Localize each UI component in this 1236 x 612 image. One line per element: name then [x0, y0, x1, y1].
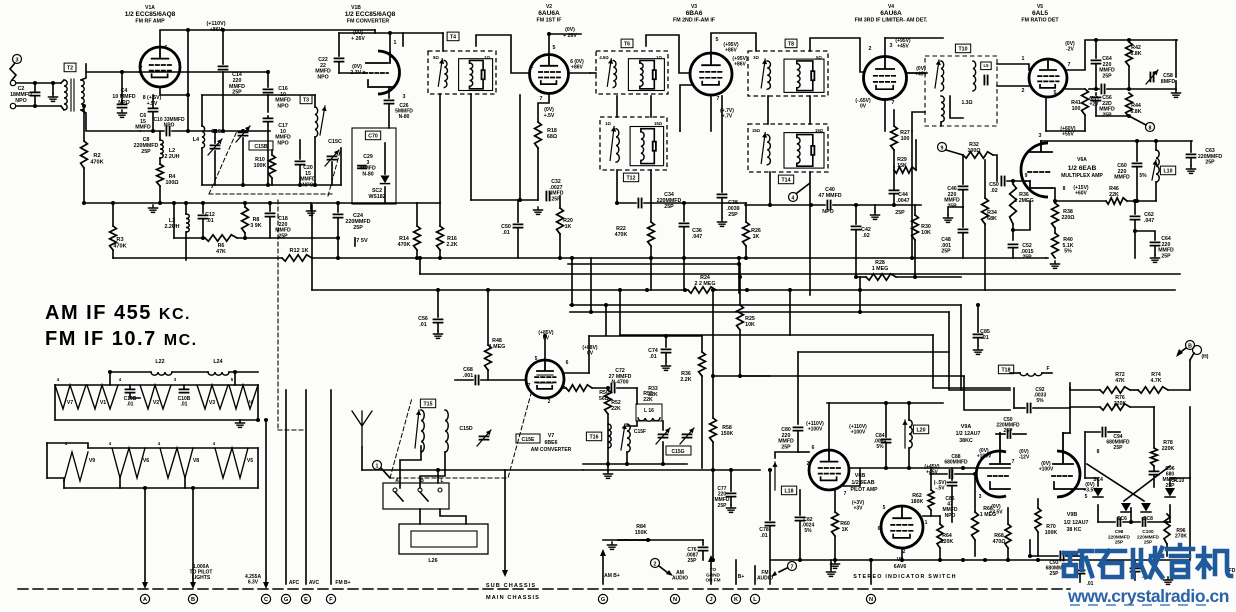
capacitor C52	[1009, 244, 1018, 247]
wire row1 right drop	[257, 385, 259, 420]
wire V7 plate up	[544, 336, 546, 360]
svg-text:(0V)+43V: (0V)+43V	[915, 66, 927, 78]
wire C66 bottom	[1154, 247, 1156, 255]
capacitor C15C arrow	[325, 150, 339, 166]
wire R41 bottom	[1084, 115, 1086, 131]
wire switch to L26	[419, 509, 421, 524]
wire V3 plate to T8	[711, 33, 756, 53]
wire gnd stem	[310, 203, 312, 208]
svg-text:15Ω: 15Ω	[752, 128, 761, 133]
wire stub3	[1045, 257, 1047, 259]
svg-text:9: 9	[1025, 173, 1028, 179]
wire T15b to switch	[420, 452, 445, 488]
svg-text:L: L	[440, 478, 443, 484]
wire R4 to node	[159, 186, 161, 203]
capacitor C15G arrow	[680, 428, 694, 444]
svg-text:T8: T8	[788, 42, 794, 48]
wire to C58 col	[1129, 88, 1176, 90]
capacitor C78	[766, 522, 775, 525]
tube V9A cathode	[990, 482, 1010, 489]
wire L3 bottom	[185, 232, 187, 260]
junction	[661, 462, 665, 466]
wire row2 right drop	[257, 448, 259, 488]
wire R68 bottom	[1007, 548, 1009, 560]
svg-text:V3: V3	[209, 400, 215, 406]
svg-text:L: L	[753, 597, 757, 603]
wire V6B plate up	[828, 403, 830, 450]
junction	[1036, 558, 1040, 562]
terminal N	[866, 594, 875, 603]
wire C85 bottom	[977, 339, 979, 346]
wire heater row2 bottom rail	[64, 487, 258, 489]
svg-text:FM 1ST IF: FM 1ST IF	[536, 18, 562, 24]
wire x860 link	[859, 277, 861, 312]
wire	[1066, 555, 1080, 557]
ground below C4	[118, 110, 127, 117]
wire	[119, 478, 121, 488]
wire V1B cathode down	[388, 87, 390, 98]
coil L16	[638, 418, 660, 421]
junction	[976, 303, 980, 307]
wire row2 left loop bottom	[47, 478, 64, 481]
junction	[711, 288, 715, 292]
capacitor C6	[149, 108, 158, 111]
svg-text:AM IF 455 KC.: AM IF 455 KC.	[45, 302, 191, 324]
wire T14 drop	[769, 172, 771, 205]
svg-text:1/2 12AU7: 1/2 12AU7	[956, 431, 981, 437]
junction	[625, 462, 629, 466]
wire C84 bottom	[885, 444, 887, 468]
wire C44 bottom	[893, 195, 895, 205]
junction	[266, 70, 270, 74]
svg-text:C78.01: C78.01	[759, 527, 769, 539]
wire to C93	[1030, 555, 1058, 557]
svg-text:1: 1	[925, 520, 928, 526]
wire bus y274	[420, 273, 1180, 275]
wire R30 top	[914, 205, 916, 215]
wire y203 segment	[684, 202, 746, 204]
junction	[1028, 554, 1032, 558]
capacitor C15D arrow	[477, 430, 491, 446]
wire heater row2 top rail	[88, 447, 258, 449]
coil L26 box	[399, 524, 488, 554]
wire into T4	[442, 33, 444, 51]
chassis dashed line right	[962, 588, 1070, 590]
svg-text:V1: V1	[100, 400, 106, 406]
svg-text:R96270K: R96270K	[1175, 528, 1187, 540]
watermark glyph shou	[1133, 548, 1162, 577]
wire x949 corner2	[949, 352, 1010, 390]
resistor R40	[1052, 233, 1059, 258]
wire	[662, 421, 664, 430]
svg-text:38KC: 38KC	[959, 438, 973, 444]
IF transformer T14 secondary coil	[797, 137, 800, 163]
junction	[1094, 87, 1098, 91]
wire heater top rail 2	[172, 371, 208, 373]
ground below C85	[974, 347, 983, 354]
L20 arrow	[902, 420, 907, 448]
resistor R4	[157, 164, 164, 186]
svg-text:6 (0V)+86V: 6 (0V)+86V	[570, 59, 584, 71]
svg-text:4: 4	[792, 195, 795, 201]
IF transformer T8 primary arrow	[761, 59, 767, 88]
capacitor C20	[296, 161, 305, 164]
junction	[737, 256, 741, 260]
junction	[486, 288, 490, 292]
resistor R29	[894, 167, 916, 173]
wire T4 drop x471	[470, 94, 472, 200]
svg-text:1/2 ECC85/6AQ8: 1/2 ECC85/6AQ8	[345, 11, 396, 18]
svg-text:R58150K: R58150K	[721, 425, 734, 437]
ground at T2	[49, 94, 58, 101]
ground below V8	[827, 569, 836, 576]
svg-text:R162.2K: R162.2K	[446, 236, 457, 248]
svg-text:C50.02: C50.02	[989, 182, 999, 194]
wire C64 bottom	[1095, 65, 1097, 89]
wire to C10	[140, 130, 164, 132]
resistor R10	[269, 155, 276, 178]
watermark url dots	[1070, 604, 1206, 606]
IF transformer T8 primary coil	[767, 61, 770, 89]
T10 cap	[984, 76, 987, 85]
wire C82 bottom	[799, 522, 801, 560]
wire C50 bottom	[517, 229, 519, 258]
capacitor C88	[950, 470, 953, 478]
wire to terminal 4	[797, 183, 810, 193]
wire heater row1 node rail	[55, 384, 258, 386]
T15 arrow	[415, 410, 421, 448]
svg-text:(+60V)+55V: (+60V)+55V	[1060, 126, 1075, 138]
capacitor C92	[1027, 404, 1030, 413]
wire to terminal C	[265, 420, 267, 584]
wire y376	[714, 375, 770, 377]
wire C10B stem	[129, 385, 131, 388]
svg-text:8: 8	[1149, 125, 1152, 131]
wire C56 bottom	[437, 324, 439, 331]
capacitor C15B arrow	[236, 126, 250, 142]
wire	[592, 387, 609, 389]
junction	[221, 129, 225, 133]
tube V1A	[140, 47, 180, 87]
capacitor C34	[638, 199, 641, 208]
wire bus y352	[798, 351, 949, 353]
svg-text:(+15V)+60V: (+15V)+60V	[1073, 185, 1088, 197]
capacitor C15B	[239, 132, 248, 135]
IF transformer T4 secondary box	[459, 59, 493, 91]
capacitor C50b	[1001, 177, 1004, 186]
wire y200	[471, 199, 538, 201]
svg-text:www.crystalradio.cn: www.crystalradio.cn	[1067, 586, 1229, 606]
tube V1B grid	[364, 72, 388, 74]
capacitor C96	[1150, 471, 1159, 474]
wire y205 right	[833, 204, 921, 206]
resistor R58	[710, 418, 717, 442]
wire C46 top	[962, 155, 964, 184]
wire B+ drop x403	[402, 33, 404, 46]
svg-text:T10: T10	[959, 47, 968, 53]
capacitor C40	[827, 201, 830, 210]
junction	[186, 93, 190, 97]
wire	[1168, 389, 1190, 391]
wire V2 cathode	[538, 94, 549, 122]
junction	[615, 201, 619, 205]
T10 primary coil	[941, 61, 944, 91]
wire R64 bottom	[939, 548, 941, 560]
svg-text:R1868Ω: R1868Ω	[547, 128, 558, 140]
wire antenna lead	[10, 63, 16, 80]
svg-text:V9: V9	[89, 458, 95, 464]
resistor R70	[1035, 508, 1041, 532]
transformer T2 core	[70, 79, 72, 111]
tube V3	[690, 53, 732, 95]
wire AM B+ column	[602, 552, 604, 584]
wire y403	[827, 402, 943, 404]
watermark glyph yin	[1167, 545, 1193, 577]
junction	[108, 370, 112, 374]
svg-text:(+110V)+100V: (+110V)+100V	[806, 421, 824, 433]
tube V2	[530, 55, 569, 94]
wire cathode line y201	[1055, 200, 1106, 202]
wire R6 to C24	[237, 237, 338, 239]
wire antenna down	[361, 447, 363, 470]
svg-text:L20: L20	[917, 428, 926, 434]
wire C20 top	[299, 140, 301, 159]
wire to terminal 8	[1129, 116, 1146, 125]
wire C24 col to bus	[337, 238, 339, 258]
resistor R60	[832, 512, 839, 536]
wire to T2 primary bottom	[61, 106, 64, 110]
terminal G	[598, 594, 607, 603]
IF transformer T6 secondary box	[628, 59, 664, 91]
wire SC4 top	[1085, 478, 1098, 486]
tube V8	[881, 506, 923, 548]
capacitor C72	[611, 384, 614, 393]
svg-text:G: G	[601, 597, 605, 603]
capacitor .01 a	[1076, 570, 1085, 573]
watermark glyph kuang	[1064, 551, 1092, 576]
junction	[1133, 229, 1137, 233]
wire to C34	[617, 202, 636, 204]
wire C10 to node	[172, 130, 188, 132]
wire	[374, 30, 376, 33]
resistor R38	[1052, 203, 1059, 228]
tube V1B cathode	[368, 80, 392, 87]
resistor R72	[1100, 387, 1130, 393]
junction	[547, 32, 551, 36]
IF transformer T14 primary coil	[767, 135, 770, 165]
tube V9B grid	[1052, 475, 1074, 477]
dashed AGC link	[278, 429, 306, 431]
junction	[388, 31, 392, 35]
wire	[1153, 466, 1155, 470]
wire V8 cathode down	[901, 548, 903, 560]
capacitor C10B	[126, 389, 135, 392]
arrowhead C	[263, 582, 269, 589]
wire C18 bottom	[269, 218, 271, 238]
terminal E	[301, 594, 310, 603]
svg-text:6AL5: 6AL5	[1032, 10, 1048, 17]
capacitor C36	[680, 223, 689, 226]
wire R96 bottom	[1166, 544, 1168, 556]
junction	[221, 28, 225, 32]
capacitor C22	[335, 58, 344, 61]
junction	[711, 468, 715, 472]
svg-text:7: 7	[892, 100, 895, 106]
junction	[682, 201, 686, 205]
svg-text:15Ω: 15Ω	[654, 121, 663, 126]
svg-text:R3322K: R3322K	[648, 386, 658, 398]
wire R22 top	[650, 203, 652, 222]
svg-text:T16: T16	[590, 435, 599, 441]
wire bus y258 left	[113, 257, 282, 259]
IF transformer T14 secondary box	[784, 133, 824, 169]
wire V4 top bus	[885, 37, 943, 39]
wire gnd lead	[874, 205, 876, 212]
svg-text:C15G: C15G	[671, 449, 684, 455]
transformer T2 primary	[64, 80, 67, 110]
wire x702 drop	[701, 376, 703, 468]
junction	[664, 334, 668, 338]
wire C16 bottom	[267, 95, 269, 112]
resistor R48	[485, 345, 492, 370]
svg-text:C62.047: C62.047	[1144, 212, 1154, 224]
capacitor C68b	[475, 376, 478, 385]
heater V9	[64, 452, 88, 481]
ground heater row1	[236, 420, 245, 427]
svg-text:FM RF AMP: FM RF AMP	[135, 19, 165, 25]
wire T6 to T12 drop	[616, 96, 618, 117]
svg-text:5: 5	[553, 45, 556, 51]
resistor R64	[937, 524, 943, 548]
svg-text:3: 3	[15, 58, 18, 64]
svg-text:7: 7	[540, 96, 543, 102]
svg-text:2: 2	[548, 399, 551, 405]
terminal circled 7	[788, 562, 797, 571]
svg-text:5: 5	[1085, 494, 1088, 500]
diode SC10	[1165, 488, 1175, 497]
terminal circled Q	[1193, 346, 1202, 355]
wire x949 drop	[948, 312, 950, 352]
arrowhead t7	[771, 571, 777, 577]
resistor R36	[1010, 184, 1017, 224]
svg-text:T14: T14	[782, 178, 791, 184]
junction	[1133, 199, 1137, 203]
wire C86 top	[951, 468, 953, 480]
wire	[1069, 388, 1071, 408]
junction	[900, 558, 904, 562]
arrowhead A	[142, 582, 148, 589]
wire T6 secondary to V3	[646, 35, 690, 73]
junction	[336, 256, 340, 260]
wire J column	[710, 560, 712, 584]
switch contact A	[393, 488, 397, 492]
IF transformer T8 link2	[797, 80, 813, 90]
wire C64 top	[1095, 40, 1097, 58]
wire	[340, 148, 342, 185]
svg-text:N: N	[673, 597, 677, 603]
wire	[1013, 388, 1015, 408]
junction	[604, 303, 608, 307]
IF transformer T14 label	[778, 175, 793, 184]
wire R18 bottom	[537, 148, 539, 200]
coil T15 label	[420, 399, 435, 408]
wire x798 drop	[797, 352, 799, 424]
switch lever A	[395, 492, 403, 501]
junction	[184, 201, 188, 205]
svg-text:L5: L5	[984, 63, 990, 68]
junction	[191, 486, 195, 490]
wire R36 bottom	[1012, 224, 1014, 240]
capacitor C16	[264, 89, 273, 92]
ground bottom right	[1164, 577, 1173, 584]
junction	[738, 374, 742, 378]
svg-text:5: 5	[883, 505, 886, 511]
wire C2 top	[34, 83, 36, 91]
tuning gang dashed outline	[209, 131, 341, 196]
wire	[739, 264, 741, 277]
svg-text:7 5V: 7 5V	[356, 238, 368, 244]
junction	[1127, 87, 1131, 91]
svg-text:C15D: C15D	[459, 426, 473, 432]
terminal A	[140, 594, 149, 603]
wire C17 bottom	[267, 123, 269, 185]
capacitor C94	[1102, 428, 1105, 437]
svg-text:B: B	[1188, 343, 1192, 349]
wire C76 bottom	[702, 552, 704, 560]
wire	[1046, 130, 1085, 132]
svg-text:8: 8	[1063, 186, 1066, 192]
watermark glyph ji	[1198, 548, 1231, 577]
wire terminal 2 lead	[659, 566, 668, 573]
wire C42 bottom	[855, 231, 857, 277]
svg-text:V5: V5	[247, 458, 253, 464]
wire	[202, 94, 268, 96]
wire L2 to R4	[159, 158, 161, 164]
diode SC4	[1093, 488, 1103, 497]
junction	[711, 558, 715, 562]
svg-text:T12: T12	[627, 176, 636, 182]
wire y468	[849, 467, 1010, 469]
wire	[1167, 521, 1170, 523]
junction	[172, 201, 176, 205]
wire R27 top lead	[893, 110, 895, 126]
capacitor C82	[796, 517, 805, 520]
junction	[418, 256, 422, 260]
wire heater top rail 3	[229, 371, 258, 373]
svg-text:PILOT AMP: PILOT AMP	[850, 487, 878, 493]
wire T10 to V5 pin2	[997, 85, 1029, 87]
junction	[1053, 199, 1057, 203]
junction	[858, 288, 862, 292]
capacitor C58 arrow	[1146, 70, 1158, 84]
ground below T16	[604, 471, 613, 478]
tube V9A grid	[988, 475, 1010, 477]
wire y205 left	[745, 204, 825, 206]
junction	[858, 310, 862, 314]
capacitor C56	[434, 319, 443, 322]
svg-text:R5222K: R5222K	[611, 400, 621, 412]
arrowhead V8	[502, 570, 508, 577]
wire R16 bottom	[439, 250, 441, 258]
coil T3 label	[300, 95, 312, 104]
wire y540	[603, 539, 703, 541]
capacitor C84	[882, 439, 891, 442]
junction	[1006, 558, 1010, 562]
svg-text:L18: L18	[785, 489, 794, 495]
wire C12 bottom	[202, 220, 204, 238]
capacitor C56b	[1092, 97, 1101, 100]
terminal C	[261, 594, 270, 603]
